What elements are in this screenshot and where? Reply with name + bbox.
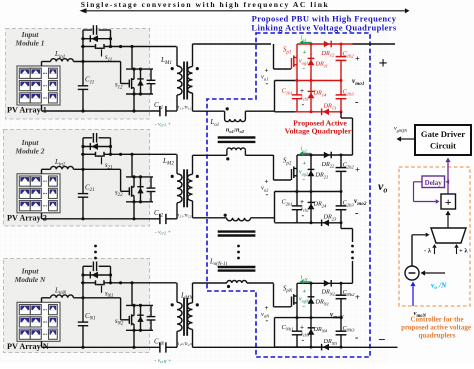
coupled inductor Lo2 top winding xyxy=(227,218,251,221)
svg-text:+: + xyxy=(303,49,307,56)
svg-text:Module 1: Module 1 xyxy=(15,39,45,48)
svg-text:-: - xyxy=(302,100,305,109)
resonant capacitor Cr1 xyxy=(159,106,161,116)
transformer LM1 primary xyxy=(176,47,178,67)
quadrupler capacitor branch xyxy=(340,283,342,295)
svg-text:+: + xyxy=(300,198,304,206)
summing block xyxy=(441,194,456,209)
quadrupler diode branch xyxy=(310,44,312,112)
junction dots xyxy=(310,43,313,46)
module 1 secondary bottom wire xyxy=(192,93,194,111)
switch SN2 block xyxy=(120,298,122,320)
subtractor circle xyxy=(405,266,419,280)
diode DR1 xyxy=(308,171,315,177)
capacitor C21 xyxy=(82,154,84,193)
input module 2: clamp diode xyxy=(83,146,111,148)
transformer LM1 secondary xyxy=(187,67,192,94)
junction dots xyxy=(310,154,313,157)
capacitor Cb2 xyxy=(336,167,347,169)
input module N: clamp diode xyxy=(83,274,111,276)
svg-text:n₁ₙ:n₂ₙ: n₁ₙ:n₂ₙ xyxy=(176,341,192,347)
quadrupler mid rail xyxy=(275,317,297,319)
switch S12 block xyxy=(120,62,122,84)
svg-text:Controller for the: Controller for the xyxy=(411,316,464,324)
diode DR4 xyxy=(308,329,315,335)
capacitor C11 xyxy=(82,47,84,86)
diode DR4 xyxy=(308,93,315,99)
input module N box xyxy=(4,259,150,353)
svg-text:-: - xyxy=(266,190,269,199)
quadrupler switch MOSFET xyxy=(291,169,293,180)
capacitor Cb2 xyxy=(336,56,347,58)
coupled inductor Lo(N-1) core xyxy=(218,266,256,268)
module 2 secondary top wire xyxy=(192,155,194,174)
svg-text:Module N: Module N xyxy=(14,275,46,284)
svg-text:n₁₁:n₁₂: n₁₁:n₁₂ xyxy=(177,105,192,111)
transformer LMN primary xyxy=(176,283,178,303)
svg-text:Single-stage conversion with h: Single-stage conversion with high freque… xyxy=(81,0,330,9)
capacitor Cb3 xyxy=(336,205,347,207)
switch S22 snubber capacitor xyxy=(150,177,152,188)
quadrupler bottom rail xyxy=(275,222,297,224)
svg-text:+: + xyxy=(355,54,360,64)
delay block (purple) xyxy=(422,176,445,188)
quadrupler mid rail xyxy=(275,191,297,193)
input module 1: clamp capacitor xyxy=(83,29,92,31)
capacitor Cb3 xyxy=(336,330,347,332)
quadrupler bottom rail xyxy=(275,111,297,113)
PV array wires xyxy=(41,169,43,174)
svg-text:- vcrN +: - vcrN + xyxy=(154,358,171,364)
svg-text:Circuit: Circuit xyxy=(430,141,456,151)
svg-text:-: - xyxy=(302,336,305,345)
input module N: clamp capacitor xyxy=(83,265,92,267)
ellipsis between coupled inductors xyxy=(237,245,240,248)
quadrupler diode branch xyxy=(310,283,312,347)
output top rail to plus terminal xyxy=(353,43,396,45)
svg-text:-: - xyxy=(302,211,305,220)
transformer core xyxy=(183,298,185,336)
svg-text:−: − xyxy=(378,332,385,347)
input module 1 box xyxy=(6,29,150,120)
transformer LM2 primary xyxy=(176,154,178,174)
switch SN2 body diode xyxy=(140,305,142,330)
arrow comparator to summer xyxy=(447,215,449,228)
svg-text:PV Array 2: PV Array 2 xyxy=(7,213,47,222)
quadrupler 1 to quadrupler 2 link wire xyxy=(340,112,342,118)
quadrupler capacitor Cb1 xyxy=(292,205,302,207)
quadrupler capacitor branch xyxy=(340,44,342,57)
module 2 secondary bottom wire xyxy=(192,201,194,218)
module N bottom rail xyxy=(42,346,160,348)
PV array 1 block xyxy=(17,66,60,105)
purple wire delay to summer xyxy=(414,181,423,183)
switch S22 block xyxy=(120,169,122,191)
quadrupler capacitor Cb1 xyxy=(292,94,302,96)
quadrupler top rail xyxy=(297,43,353,45)
diode DR2 xyxy=(324,152,330,159)
svg-text:- λ: - λ xyxy=(424,248,432,255)
svg-text:-: - xyxy=(355,208,358,219)
transformer LMN secondary xyxy=(187,303,192,330)
input module 2 box xyxy=(4,130,150,227)
quadrupler left branch xyxy=(296,169,298,206)
svg-text:vgSQN: vgSQN xyxy=(394,126,408,133)
arrow v_moN into subtractor (blue) xyxy=(412,286,414,306)
capacitor Cb2 xyxy=(336,294,347,296)
quadrupler capacitor Cb1 xyxy=(292,330,302,332)
input module 1: clamp diode xyxy=(83,38,111,40)
lambda threshold arrows xyxy=(434,248,436,254)
svg-text:+: + xyxy=(300,87,304,95)
switch S11 (MOSFET) xyxy=(81,46,96,48)
svg-text:Gate Driver: Gate Driver xyxy=(421,129,465,139)
capacitor Cb3 xyxy=(336,94,347,96)
diode DR1 xyxy=(308,298,315,304)
svg-text:+: + xyxy=(303,160,307,167)
quadrupler switch MOSFET xyxy=(291,297,293,307)
svg-text:proposed active voltage: proposed active voltage xyxy=(401,324,471,332)
wire to bottom rail xyxy=(133,94,135,111)
module N secondary bottom wire xyxy=(192,329,194,347)
svg-text:-: - xyxy=(355,97,358,108)
switch S12 snubber capacitor xyxy=(150,69,152,80)
svg-text:+: + xyxy=(445,195,452,209)
quadrupler diode branch xyxy=(310,155,312,223)
input module N: clamp rails xyxy=(82,266,84,283)
svg-text:+: + xyxy=(265,304,269,312)
svg-text:+: + xyxy=(303,288,307,295)
inductor Lin1 xyxy=(42,61,51,63)
svg-text:n₂₁:n₂₂: n₂₁:n₂₂ xyxy=(177,212,192,218)
svg-text:- vcr2 +: - vcr2 + xyxy=(155,229,172,235)
diode DR4 xyxy=(308,204,315,210)
purple wire tap into delay xyxy=(448,181,449,183)
arrow vo/N into subtractor xyxy=(425,272,445,274)
input module 2: clamp rails xyxy=(82,138,84,155)
input module 1: clamp rails xyxy=(82,30,84,47)
coupled inductor Lo(N-1) bottom winding xyxy=(193,282,227,284)
quadrupler input riser xyxy=(273,155,275,180)
resonant capacitor Cr2 xyxy=(159,214,161,224)
svg-text:+: + xyxy=(355,165,360,175)
svg-text:Module 2: Module 2 xyxy=(15,146,45,155)
ellipsis between quadrupler 2 and N link xyxy=(351,245,354,248)
svg-text:+: + xyxy=(265,178,269,186)
svg-text:Linking Active Voltage Quadrup: Linking Active Voltage Quadruplers xyxy=(251,23,396,33)
input module 2: clamp capacitor xyxy=(83,137,92,139)
span arrow for AC link xyxy=(86,10,405,12)
PBU dashed boundary xyxy=(207,33,370,357)
quadrupler left input riser to mid rail xyxy=(274,192,276,223)
quadrupler left input riser to mid rail xyxy=(274,318,276,347)
quadrupler left branch xyxy=(296,58,298,95)
quadrupler capacitor branch xyxy=(340,155,342,168)
switch S22 body diode xyxy=(140,177,142,202)
wire to bottom rail xyxy=(133,202,135,219)
PV array 2 block xyxy=(17,174,60,213)
quadrupler top rail xyxy=(297,282,353,284)
svg-text:- vcr1 +: - vcr1 + xyxy=(155,122,172,128)
ellipsis between module 2 and module N xyxy=(94,245,97,248)
coupled inductor Lo2 core xyxy=(218,230,256,232)
coupled inductor Lo1 core xyxy=(218,136,256,138)
switch S21 (MOSFET) xyxy=(81,153,96,155)
diode DR3 xyxy=(323,220,329,227)
module N secondary top wire xyxy=(192,283,194,303)
svg-text:+: + xyxy=(265,67,269,75)
quadrupler top rail xyxy=(297,154,353,156)
quadrupler mid rail xyxy=(275,80,297,82)
transformer core xyxy=(183,169,185,207)
controller orange dashed box xyxy=(399,167,470,306)
transformer LM2 secondary xyxy=(187,174,192,201)
coupled inductor Lo1 bottom winding xyxy=(193,154,227,156)
junction dots xyxy=(310,282,313,285)
PV array wires xyxy=(41,298,43,303)
svg-text:+: + xyxy=(355,292,360,302)
wire subtractor to comparator xyxy=(411,235,413,266)
resonant capacitor CrN xyxy=(159,342,161,352)
gate driver circuit box xyxy=(415,125,471,155)
svg-text:PV Array N: PV Array N xyxy=(7,342,49,351)
module 1 secondary top wire xyxy=(192,44,194,67)
quadrupler 2 to quadrupler N link wire xyxy=(340,223,342,229)
switch SN2 snubber capacitor xyxy=(150,305,152,316)
quadrupler bottom rail xyxy=(275,346,297,348)
quadrupler switch MOSFET xyxy=(291,58,293,69)
svg-text:+ λ: + λ xyxy=(459,248,468,255)
diode DR1 xyxy=(308,60,315,66)
quadrupler input riser xyxy=(273,283,275,307)
PV array wires xyxy=(41,62,43,67)
module 2 bottom rail xyxy=(42,218,160,220)
switch S12 body diode xyxy=(140,69,142,94)
svg-text:Voltage Quadrupler: Voltage Quadrupler xyxy=(285,127,352,136)
wire to bottom rail xyxy=(133,330,135,347)
diode DR3 xyxy=(323,109,329,116)
capacitor CN1 xyxy=(82,283,84,322)
svg-text:-: - xyxy=(266,316,269,325)
switch SN1 (MOSFET) xyxy=(81,282,96,284)
purple wire sum to gate driver xyxy=(447,162,449,194)
quadrupler input riser xyxy=(273,44,275,69)
svg-text:-: - xyxy=(355,333,358,344)
svg-text:+: + xyxy=(378,55,387,72)
diode DR3 xyxy=(323,344,329,351)
svg-text:PV Array 1: PV Array 1 xyxy=(7,106,47,115)
inductor LinN xyxy=(42,297,51,299)
transformer core xyxy=(183,62,185,100)
inductor Lin2 xyxy=(42,168,51,170)
hysteresis comparator trapezoid xyxy=(431,228,466,243)
quadrupler left branch xyxy=(296,296,298,331)
diode DR2 xyxy=(324,280,330,287)
coupled inductor Lo1 top winding xyxy=(224,111,226,119)
svg-text:Delay: Delay xyxy=(425,179,443,187)
svg-text:-: - xyxy=(266,79,269,88)
module 1 bottom rail xyxy=(42,110,160,112)
svg-text:quadruplers: quadruplers xyxy=(419,332,456,340)
PV array N block xyxy=(17,302,60,341)
diode DR2 xyxy=(324,41,330,48)
quadrupler left input riser to mid rail xyxy=(274,81,276,112)
